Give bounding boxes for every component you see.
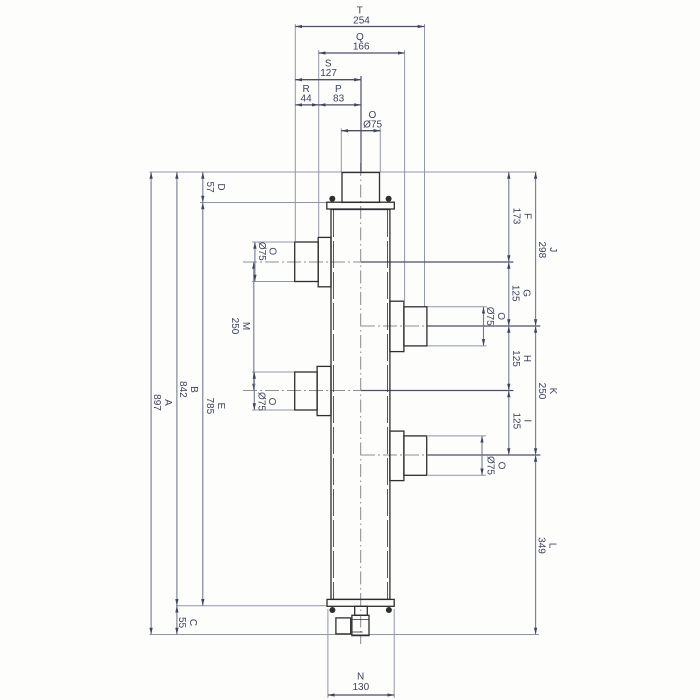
- svg-text:Ø75: Ø75: [363, 120, 382, 131]
- svg-text:H: H: [521, 355, 532, 362]
- svg-text:250: 250: [229, 318, 240, 335]
- svg-text:130: 130: [352, 682, 369, 693]
- svg-text:Ø75: Ø75: [256, 242, 267, 261]
- svg-text:173: 173: [511, 208, 522, 225]
- svg-text:G: G: [520, 289, 531, 297]
- svg-text:842: 842: [177, 381, 188, 398]
- svg-text:O: O: [267, 247, 278, 255]
- svg-text:127: 127: [320, 68, 337, 79]
- svg-text:83: 83: [333, 93, 345, 104]
- svg-text:298: 298: [536, 241, 547, 258]
- svg-text:44: 44: [301, 93, 313, 104]
- svg-text:254: 254: [353, 16, 370, 27]
- svg-text:897: 897: [151, 394, 162, 411]
- svg-text:E: E: [215, 402, 226, 409]
- svg-text:O: O: [266, 398, 277, 406]
- svg-text:L: L: [546, 543, 557, 549]
- svg-text:K: K: [547, 388, 558, 395]
- svg-text:166: 166: [353, 42, 370, 53]
- svg-text:55: 55: [176, 617, 187, 629]
- svg-text:125: 125: [510, 350, 521, 367]
- svg-text:C: C: [187, 619, 198, 626]
- svg-text:125: 125: [511, 412, 522, 429]
- svg-text:Ø75: Ø75: [484, 307, 495, 326]
- svg-text:A: A: [162, 399, 173, 406]
- svg-text:O: O: [495, 312, 506, 320]
- svg-text:Ø75: Ø75: [255, 392, 266, 411]
- svg-text:D: D: [215, 183, 226, 190]
- svg-text:J: J: [547, 247, 558, 252]
- svg-text:125: 125: [510, 285, 521, 302]
- svg-text:O: O: [495, 462, 506, 470]
- svg-text:250: 250: [536, 383, 547, 400]
- svg-text:785: 785: [204, 397, 215, 414]
- svg-text:M: M: [240, 322, 251, 330]
- svg-text:N: N: [357, 672, 364, 683]
- svg-text:349: 349: [536, 537, 547, 554]
- svg-text:F: F: [521, 213, 532, 219]
- svg-text:Ø75: Ø75: [485, 456, 496, 475]
- svg-text:57: 57: [204, 181, 215, 193]
- svg-text:I: I: [521, 419, 532, 422]
- svg-text:B: B: [188, 386, 199, 393]
